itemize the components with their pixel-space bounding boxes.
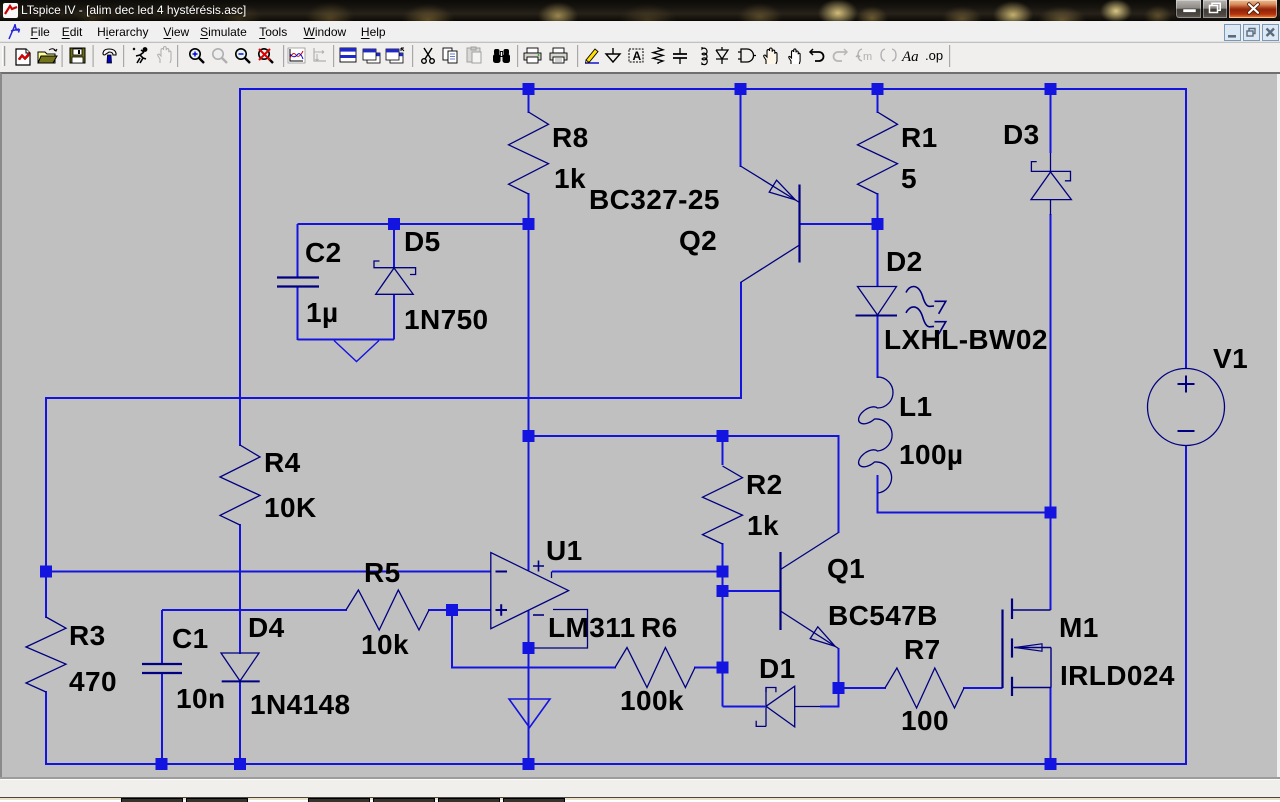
svg-text:R1: R1 bbox=[901, 122, 938, 153]
svg-text:Q1: Q1 bbox=[827, 553, 865, 584]
svg-text:100: 100 bbox=[901, 705, 949, 736]
svg-text:R3: R3 bbox=[69, 620, 106, 651]
svg-text:R5: R5 bbox=[364, 557, 401, 588]
svg-text:U1: U1 bbox=[546, 535, 583, 566]
svg-text:R4: R4 bbox=[264, 447, 301, 478]
svg-text:Q2: Q2 bbox=[679, 225, 717, 256]
svg-text:BC547B: BC547B bbox=[828, 600, 938, 631]
svg-text:D3: D3 bbox=[1003, 119, 1040, 150]
svg-text:1N750: 1N750 bbox=[404, 304, 489, 335]
svg-text:10n: 10n bbox=[176, 683, 225, 714]
svg-text:1k: 1k bbox=[747, 510, 779, 541]
svg-text:C1: C1 bbox=[172, 623, 209, 654]
svg-text:M1: M1 bbox=[1059, 612, 1099, 643]
svg-text:IRLD024: IRLD024 bbox=[1060, 660, 1175, 691]
svg-text:D2: D2 bbox=[886, 246, 923, 277]
svg-text:D5: D5 bbox=[404, 226, 441, 257]
svg-text:R6: R6 bbox=[641, 612, 678, 643]
svg-text:D1: D1 bbox=[759, 653, 796, 684]
svg-text:V1: V1 bbox=[1213, 343, 1248, 374]
svg-text:BC327-25: BC327-25 bbox=[589, 184, 720, 215]
svg-text:R2: R2 bbox=[746, 469, 783, 500]
svg-text:1N4148: 1N4148 bbox=[250, 689, 350, 720]
svg-text:10k: 10k bbox=[361, 629, 409, 660]
svg-text:R7: R7 bbox=[904, 634, 941, 665]
svg-text:100k: 100k bbox=[620, 685, 684, 716]
svg-text:C2: C2 bbox=[305, 237, 342, 268]
svg-text:10K: 10K bbox=[264, 492, 317, 523]
svg-text:LXHL-BW02: LXHL-BW02 bbox=[884, 324, 1048, 355]
svg-text:LM311: LM311 bbox=[548, 612, 636, 643]
svg-text:1k: 1k bbox=[554, 163, 586, 194]
svg-text:100µ: 100µ bbox=[899, 439, 963, 470]
svg-text:5: 5 bbox=[901, 163, 917, 194]
svg-text:L1: L1 bbox=[899, 391, 932, 422]
svg-text:R8: R8 bbox=[552, 122, 589, 153]
svg-text:470: 470 bbox=[69, 666, 117, 697]
svg-text:D4: D4 bbox=[248, 612, 285, 643]
svg-text:1µ: 1µ bbox=[306, 297, 339, 328]
